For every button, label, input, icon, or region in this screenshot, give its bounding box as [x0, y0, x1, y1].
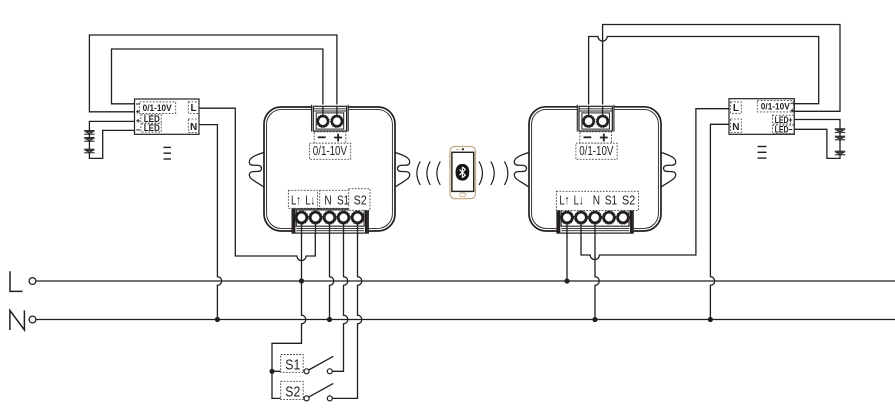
label N (mains neutral) [10, 310, 25, 330]
node junction dot L bus / M1 L-up [299, 278, 304, 283]
label LED- dashed box driver left [141, 124, 161, 132]
switch S2 output contact [327, 396, 332, 401]
radio wave arc right 3 [504, 161, 507, 185]
label S2 dashed box [281, 381, 304, 399]
wire L : left driver L output to module M1 L-down terminal (hop over vertical at x=301.5) [199, 108, 315, 260]
svg-text:S1: S1 [605, 192, 617, 207]
terminal block bottom of M2 [557, 209, 633, 234]
svg-text:0/1-10V: 0/1-10V [761, 102, 790, 112]
wire N : left driver N to N bus (hop over L bus) [199, 125, 222, 320]
node junction dot L bus / left driver N [215, 317, 220, 322]
terminal (minus) of M1 top block, pin 1 [317, 115, 329, 127]
dimmer module M1 body [264, 107, 395, 231]
radio wave arc right 1 [479, 161, 482, 185]
wire N terminal of M2 to N bus (hop over L bus) [595, 233, 599, 320]
wire L : right driver L to module M2 L-down terminal (hop on horizontal over N wire) [581, 109, 729, 260]
wire stubs below M1 bottom terminals [302, 223, 358, 234]
strain relief lines below driver right [758, 147, 767, 159]
switch S1 lever [309, 356, 334, 370]
label led plus mark driver left [136, 119, 140, 123]
switch S2 common contact [304, 396, 309, 401]
label dashed box N S1 of M1 [320, 190, 351, 208]
smartphone camera dot [462, 148, 464, 150]
svg-text:LED−: LED− [775, 124, 793, 134]
label 0/1-10V dashed box M2 [576, 143, 617, 159]
terminal L-up of M2, pin 1 [561, 211, 574, 224]
node junction dot N bus / M2 N [592, 317, 597, 322]
smartphone body [450, 147, 476, 199]
svg-text:S2: S2 [354, 192, 367, 207]
svg-text:0/1-10V: 0/1-10V [313, 143, 347, 158]
label dashed box S2 of M1 [349, 189, 370, 211]
smartphone screen [452, 152, 474, 191]
wire S2 terminal of M1 to switch S2 (hops over L and N buses) [332, 233, 362, 398]
node L terminal circle [29, 278, 36, 285]
node junction dot N bus / right driver N [708, 317, 713, 322]
terminal (plus) of M2 top block, pin 2 [596, 115, 608, 127]
label L (mains live) [10, 271, 23, 291]
terminal block bottom of M1 [292, 209, 368, 234]
terminal N of M2, pin 3 [589, 211, 602, 224]
radio wave arc right 2 [491, 161, 494, 185]
terminal S1 of M2, pin 4 [603, 211, 616, 224]
smartphone earpiece [456, 148, 459, 150]
LED D3 (left chain) [84, 149, 94, 153]
bluetooth logo plate [456, 164, 470, 181]
svg-text:N: N [190, 122, 197, 133]
label dim plus mark driver right [791, 109, 795, 113]
svg-text:S1: S1 [337, 192, 349, 207]
terminal block top of M1 [312, 105, 349, 132]
mounting ear left of M1 [249, 152, 265, 188]
label 0/1-10V dashed box driver left [140, 102, 176, 114]
LED D5 (right chain) [835, 136, 845, 140]
wire dim+ : right module M2 plus terminal to right driver [603, 25, 840, 116]
wire LED+ : right driver through right LED chain [794, 120, 840, 159]
svg-text:L↓: L↓ [305, 192, 315, 207]
mounting ear left of M2 [514, 152, 530, 188]
svg-text:L↑: L↑ [291, 192, 301, 207]
node junction dot N bus / M1 N [327, 317, 332, 322]
label L dashed box driver left [188, 102, 199, 114]
radio wave arc left 2 [427, 161, 430, 185]
LED driver left box [135, 99, 200, 134]
smartphone side buttons [448, 156, 450, 167]
svg-text:S2: S2 [285, 383, 300, 400]
wire stub into M1 minus terminal [322, 106, 324, 117]
radio wave arc left 1 [417, 161, 420, 185]
wire stub into M1 plus terminal [336, 106, 338, 117]
svg-text:S1: S1 [285, 356, 300, 373]
label 0/1-10V dashed box M1 [310, 143, 351, 159]
label dim minus mark driver right [791, 102, 795, 104]
svg-text:LED+: LED+ [775, 115, 793, 125]
wire N terminal of M1 to N bus (hop over L bus) [330, 233, 334, 320]
strain relief lines below driver left [164, 147, 172, 159]
svg-text:L↓: L↓ [574, 192, 584, 207]
label N dashed box driver right [731, 119, 742, 132]
terminal L-down of M1, pin 2 [309, 211, 322, 224]
terminal S1 of M1, pin 4 [337, 211, 350, 224]
wire stubs below M2 bottom terminals [567, 223, 595, 234]
LED D1 (left chain) [84, 131, 94, 135]
label dashed box minus plus M2 [580, 132, 612, 143]
svg-text:S2: S2 [622, 192, 635, 207]
label dashed box L-up L-down of M1 [288, 190, 317, 208]
node N terminal circle [29, 316, 36, 323]
terminal S2 of M1, pin 5 [351, 211, 364, 224]
wire L bus line [36, 280, 895, 282]
LED D4 (right chain) [835, 129, 845, 133]
wire stub into M2 plus terminal [602, 106, 604, 117]
label dim minus mark driver left [136, 103, 140, 105]
wire L-up terminal of M2 down to L bus [566, 233, 568, 281]
label plus sign M2 [600, 134, 608, 142]
wire switch common feed to S1 [272, 370, 304, 372]
radio wave arc left 3 [437, 161, 440, 185]
LED D2 (left chain) [84, 138, 94, 142]
label 0/1-10V dashed box driver right [757, 100, 793, 112]
label plus sign M1 [334, 134, 342, 142]
svg-text:0/1-10V: 0/1-10V [143, 103, 172, 113]
label dim plus mark driver left [136, 110, 140, 114]
wire dim+ : left driver to module M1 plus terminal [89, 35, 337, 115]
label minus sign M2 [584, 136, 592, 138]
wire stub into M2 minus terminal [588, 106, 590, 117]
svg-text:L: L [733, 103, 739, 114]
svg-text:N: N [324, 192, 331, 207]
dimmer module M2 body [529, 107, 661, 231]
node junction dot switch common [269, 369, 274, 374]
terminal L-down of M2, pin 2 [575, 211, 588, 224]
wire dim- : left driver to module M1 minus terminal [112, 49, 323, 115]
svg-text:LED: LED [144, 123, 160, 133]
switch S1 output contact [327, 369, 332, 374]
bluetooth rune [460, 167, 466, 178]
terminal N of M1, pin 3 [323, 211, 336, 224]
terminal S2 of M2, pin 5 [617, 211, 630, 224]
label dashed box terminal row M2 [556, 191, 638, 210]
label LED+ dashed box driver left [141, 115, 161, 123]
label L dashed box driver right [731, 102, 742, 114]
mounting ear right of M1 [394, 152, 410, 188]
terminal (minus) of M2 top block, pin 1 [582, 115, 594, 127]
svg-text:0/1-10V: 0/1-10V [579, 143, 613, 158]
wire S1 terminal of M1 to switch S1 (hops over L and N buses) [332, 233, 348, 371]
LED driver right box [729, 99, 794, 135]
wire LED+ : left driver through LED chain [89, 121, 134, 158]
svg-text:L↑: L↑ [559, 192, 569, 207]
label LED+ dashed box driver right [772, 115, 794, 124]
wire dim- : right module M2 minus terminal to right driver (hop over plus wire) [589, 37, 819, 116]
switch S1 common contact [304, 369, 309, 374]
wire L-up terminal of M1 down to L bus and on to switches (hop over N bus) [272, 233, 306, 398]
terminal block top of M2 [577, 105, 614, 132]
wire N : right driver N to N bus (hop over L bus) [710, 124, 729, 319]
label dashed box minus plus M1 [314, 132, 346, 143]
label N dashed box driver left [188, 119, 199, 132]
label minus sign M1 [318, 136, 326, 138]
svg-text:L: L [191, 103, 197, 114]
terminal L-up of M1, pin 1 [295, 211, 308, 224]
smartphone home button [460, 193, 466, 197]
label LED- dashed box driver right [772, 125, 794, 133]
svg-text:N: N [593, 192, 600, 207]
mounting ear right of M2 [660, 152, 676, 188]
wire N bus line [36, 319, 895, 321]
node junction dot L bus / M2 L-up [564, 278, 569, 283]
label led minus mark driver left [136, 129, 140, 131]
switch S2 lever [309, 383, 334, 397]
label S1 dashed box [281, 355, 304, 373]
svg-text:N: N [732, 122, 739, 133]
LED D6 (right chain) [835, 151, 845, 155]
terminal (plus) of M1 top block, pin 2 [331, 115, 343, 127]
